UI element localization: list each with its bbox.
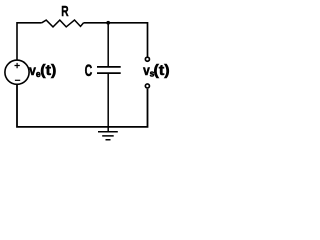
voltage source U1 circle bbox=[5, 60, 29, 84]
wire: top-left loop (left vertical upper + top horizontal to resistor) bbox=[17, 23, 42, 61]
wire: capacitor branch lower down through bottom bus to ground bbox=[107, 73, 109, 132]
wire: capacitor branch upper bbox=[107, 23, 109, 67]
source label v_e(t) bbox=[29, 62, 56, 79]
svg-text:R: R bbox=[61, 2, 68, 19]
capacitor C plates bbox=[97, 67, 121, 73]
node junction dot at top of capacitor branch bbox=[106, 21, 110, 25]
output terminal upper (open circle) bbox=[145, 57, 149, 61]
svg-text:(t): (t) bbox=[40, 63, 56, 79]
svg-text:C: C bbox=[85, 60, 93, 79]
source polarity minus sign bbox=[15, 79, 20, 81]
ground symbol bbox=[98, 132, 118, 140]
svg-text:(t): (t) bbox=[154, 63, 170, 79]
wire: top horizontal from resistor to right corner, down to terminal bbox=[84, 23, 148, 57]
output terminal lower (open circle) bbox=[145, 84, 149, 88]
wire: left vertical lower + bottom bus + right vertical lower bbox=[17, 84, 148, 127]
output label v_s(t) bbox=[143, 62, 169, 79]
source polarity plus sign bbox=[15, 63, 20, 68]
resistor R1 zigzag bbox=[42, 20, 84, 27]
